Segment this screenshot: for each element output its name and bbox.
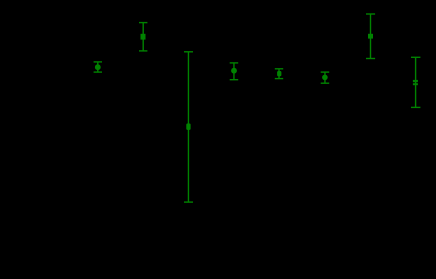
error bar 5 (x=279.0) <box>275 69 283 79</box>
marker 5 (filled ellipse) <box>277 71 281 76</box>
marker 2 (filled square) <box>141 34 146 40</box>
marker 3 (filled tall ellipse) <box>186 124 190 130</box>
marker 1 (filled circle) <box>95 64 101 70</box>
marker 4 (filled circle) <box>231 68 237 74</box>
error bar 2 (x=143.2) <box>139 23 147 51</box>
error bar 7 (x=370.5) <box>366 14 375 59</box>
error bar 1 (x=97.8) <box>94 62 102 72</box>
marker 6 (filled circle) <box>322 75 328 81</box>
marker 7 (filled square) <box>368 34 373 39</box>
error bar 6 (x=324.95) <box>321 72 330 83</box>
marker 8 (two stacked squares) <box>413 80 418 85</box>
error bar 4 (x=233.95) <box>230 63 239 80</box>
error bar 3 (x=188.45, tall) <box>184 52 193 202</box>
error bar 8 (x=415.6) <box>411 57 420 107</box>
